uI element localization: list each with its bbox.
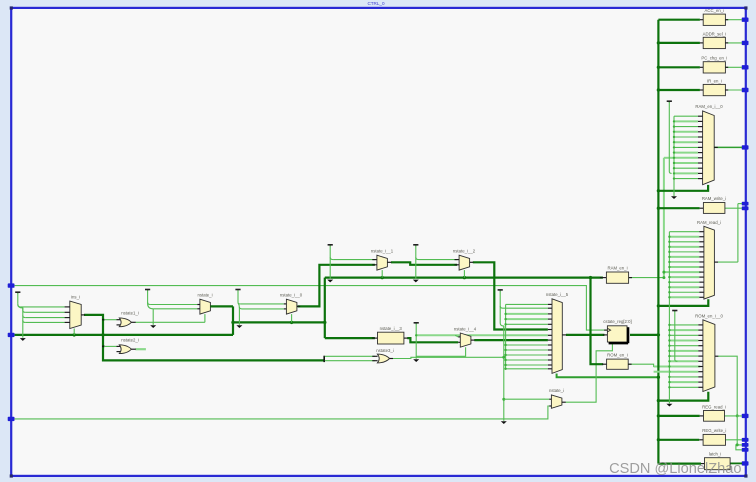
wire nstate_i__2 output down to nstate_i__5 input (473, 262, 548, 329)
port RAM_en (right) (742, 145, 749, 149)
buffer nstate_i__3 (378, 326, 408, 344)
port ACC_en (right) (742, 18, 749, 22)
buffer IR_en_i (703, 78, 728, 95)
mux ins_i (65, 294, 85, 335)
wire cstate distribution bus (vertical x=658) (657, 20, 709, 464)
wire nstate_i__5 select from state bus (557, 374, 661, 379)
wire tie line to small nstate_i mux input (504, 398, 549, 400)
tie-off T5 with ground arrow (vertical feed line) (498, 289, 548, 424)
svg-text:nstate_i__0: nstate_i__0 (280, 292, 303, 297)
svg-text:latch_i: latch_i (709, 451, 721, 456)
mux nstate_i (197, 292, 233, 314)
buffer ACC_en_i (703, 8, 728, 25)
wire nstate_i__0 output to nstate_i__1 input (298, 265, 377, 307)
svg-text:nstate2_i: nstate2_i (121, 338, 138, 343)
svg-text:nstate3_i: nstate3_i (376, 348, 393, 353)
tie-off T2 with ground arrow feeding nstate_i__0 inputs (235, 289, 283, 328)
mux RAM_read_i (697, 220, 721, 299)
svg-text:nstate_i__4: nstate_i__4 (454, 326, 477, 331)
svg-text:RAM_en_i: RAM_en_i (607, 266, 627, 271)
port REG_write (right) (742, 443, 749, 447)
buffer ADDR_sel_i (703, 31, 729, 48)
svg-text:ins_i: ins_i (71, 294, 80, 299)
mux RAM_en_i__0 (695, 104, 723, 185)
svg-text:nstate_i: nstate_i (197, 292, 212, 297)
svg-text:RAM_read_i: RAM_read_i (697, 220, 721, 225)
or-gate nstate1_i (117, 311, 139, 327)
svg-text:nstate_i__5: nstate_i__5 (546, 292, 569, 297)
tie-off T0 with ground arrow feeding ins_i inputs (15, 291, 64, 341)
svg-text:nstate_i: nstate_i (549, 388, 564, 393)
buffer latch_i (705, 451, 731, 469)
wire ins_i output net (down x=103 to nstate gates and nstate3_i fanout) (84, 315, 378, 362)
wire nstate_i__3 output to nstate_i__4 input (407, 338, 458, 342)
svg-text:nstate_i__3: nstate_i__3 (380, 326, 403, 331)
port REG_write2 (right) (742, 448, 749, 452)
port REG_read (right) (742, 438, 749, 442)
port IR_en (right) (742, 88, 749, 92)
svg-text:ROM_en_i: ROM_en_i (607, 353, 628, 358)
svg-text:nstate_i__1: nstate_i__1 (371, 248, 394, 253)
svg-text:REG_read_i: REG_read_i (702, 404, 726, 409)
or-gate nstate3_i (376, 348, 393, 363)
port latch (right) (742, 461, 749, 465)
wire nstate2_i output (dangling) (135, 348, 146, 350)
wire ROM_en_i__0 output down to ROM_en port (715, 356, 739, 417)
wire clk net (left port to cstate_reg clock) (15, 286, 608, 331)
wire latch_i output to port (730, 462, 742, 464)
svg-text:nstate_i__2: nstate_i__2 (453, 248, 476, 253)
wire nstate_i__5 output to cstate_reg D (566, 334, 607, 336)
port start (left) (8, 417, 15, 421)
wire ROM_en_i output to ROM_en_i__0 comb (628, 364, 700, 366)
wire REG_write_i output and port loopback (726, 416, 743, 450)
wire REG_read_i output to port (725, 415, 743, 417)
mux nstate_i__4 (454, 326, 477, 347)
port PC_chg_en (right) (742, 65, 749, 69)
port rst (left) (8, 333, 15, 337)
wire state bus net (left port, nstate jogs, long line to RAM_en_i and nstate_i__3) (15, 276, 607, 338)
mux nstate_i (second stage) (549, 388, 566, 408)
port RAM_write (right) (742, 202, 749, 206)
svg-text:RAM_write_i: RAM_write_i (702, 196, 726, 201)
svg-text:RAM_en_i__0: RAM_en_i__0 (695, 104, 723, 109)
module label CTRL_0 (367, 1, 385, 6)
port clk (left) (8, 283, 15, 287)
svg-text:ROM_en_i__0: ROM_en_i__0 (695, 313, 723, 318)
mux nstate_i__1 (371, 248, 394, 277)
wire nstate_i__4 output to nstate_i__5 input (474, 339, 548, 341)
buffer REG_read_i (702, 404, 726, 421)
wire nstate_i__5 input comb bus (504, 304, 552, 370)
buffer RAM_en_i (606, 266, 632, 284)
svg-text:nstate1_i: nstate1_i (121, 311, 138, 316)
wire buffer outputs to top-right ports (725, 20, 742, 90)
svg-text:PC_chg_en_i: PC_chg_en_i (701, 56, 727, 61)
mux nstate_i__0 (280, 292, 303, 322)
wire nstate1_i output to nstate_i select (135, 314, 205, 322)
or-gate nstate2_i (117, 338, 139, 354)
port ADDR_sel (right) (742, 41, 749, 45)
buffer ROM_en_i (607, 353, 632, 370)
wire nstate3_i output to tie line (393, 357, 504, 358)
port ROM_en (right) (742, 414, 749, 418)
svg-text:CSDN @LionelZhao: CSDN @LionelZhao (609, 461, 741, 477)
port RAM_read (right) (742, 206, 749, 210)
buffer RAM_write_i (702, 196, 726, 213)
svg-text:CTRL_0: CTRL_0 (367, 1, 385, 6)
wire nstate_i (small mux) output to cstate_reg enable (566, 343, 613, 402)
svg-text:REG_write_i: REG_write_i (702, 428, 726, 433)
wire nstate_i__1 output to nstate_i__2 input (391, 262, 459, 265)
wire start net (left port y=419 to small nstate_i mux) (15, 406, 550, 419)
tie-off T3 with ground arrow feeding nstate_i__1 input (327, 244, 377, 282)
svg-text:IR_en_i: IR_en_i (707, 78, 722, 83)
wire RAM_en_i__0 input comb with tie-off T6 and ground arrow (667, 100, 703, 199)
buffer REG_write_i (702, 428, 726, 445)
wire RAM_en_i output feedback to mux combs (629, 158, 701, 279)
wire RAM_read_i and ROM_en_i__0 input combs with tie-off T7 and ground arrow (654, 232, 704, 407)
wire cstate_reg output to distribution bus (630, 333, 660, 336)
wire nstate_i__4 select (416, 347, 465, 356)
tie-off T4L with ground arrow feeding nstate_i__4 and nstate_i__5 inputs (413, 322, 548, 362)
wire RAM_en_i__0 output to port (714, 146, 742, 148)
tie-off T4 with ground arrow feeding nstate_i__2 input (413, 244, 459, 282)
tie-off T1 with ground arrow feeding nstate_i inputs (145, 289, 197, 328)
svg-text:ADDR_sel_i: ADDR_sel_i (703, 31, 726, 36)
buffer PC_chg_en_i (701, 56, 728, 73)
wire RAM_write_i and RAM_read_i outputs to ports (714, 204, 742, 263)
mux ROM_en_i__0 (695, 313, 723, 391)
svg-text:ACC_en_i: ACC_en_i (705, 8, 725, 13)
svg-text:cstate_reg[2:0]: cstate_reg[2:0] (603, 319, 631, 324)
register cstate_reg[2:0] (603, 319, 631, 343)
mux nstate_i__2 (453, 248, 476, 277)
mux nstate_i__5 (546, 292, 569, 373)
wire ROM_en_i input from state bus (591, 278, 607, 365)
